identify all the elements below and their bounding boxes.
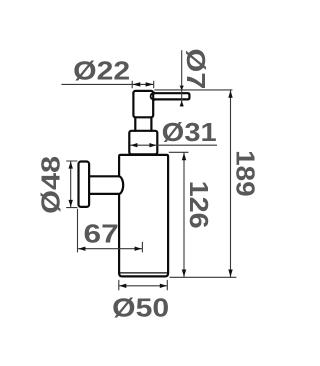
spout junction arc: [151, 93, 155, 100]
Ø31 dim line: [130, 144, 217, 146]
svg-text:126: 126: [184, 181, 214, 229]
126 arrows: [182, 153, 186, 160]
Ø48 arrows: [69, 162, 73, 169]
Ø7 vertical line: [181, 50, 183, 106]
spout: [154, 93, 190, 99]
wall flange: [79, 162, 90, 207]
Ø7 arrows: [180, 86, 184, 91]
Ø50 arrows: [119, 284, 126, 288]
Ø48 dim line + ticks: [66, 161, 77, 208]
126 top ext + vertical: [169, 152, 189, 277]
svg-text:189: 189: [231, 150, 261, 197]
svg-text:Ø22: Ø22: [73, 56, 130, 86]
svg-text:Ø7: Ø7: [181, 48, 211, 89]
svg-text:Ø48: Ø48: [35, 156, 65, 214]
Ø22 dim line + ticks: [61, 81, 153, 89]
bottle body: [119, 155, 168, 277]
pump head: [133, 91, 153, 117]
svg-text:Ø31: Ø31: [162, 117, 217, 147]
Ø50 ext lines + dim line: [119, 280, 168, 290]
wall arm: [90, 176, 123, 194]
svg-text:67: 67: [84, 219, 119, 249]
Ø22 arrows: [133, 82, 141, 86]
67 ext line, center tick, dim line: [78, 209, 143, 253]
67 arrows: [78, 247, 85, 251]
pump collar: [129, 131, 157, 155]
bottle base inner line: [120, 272, 167, 274]
pump stem: [135, 118, 151, 131]
svg-text:Ø50: Ø50: [112, 292, 169, 322]
Ø7 extension line (also 189 top): [154, 89, 232, 91]
Ø31 arrows: [131, 143, 138, 147]
189 vertical + bottom ext: [170, 90, 237, 277]
189 arrows: [228, 90, 232, 97]
